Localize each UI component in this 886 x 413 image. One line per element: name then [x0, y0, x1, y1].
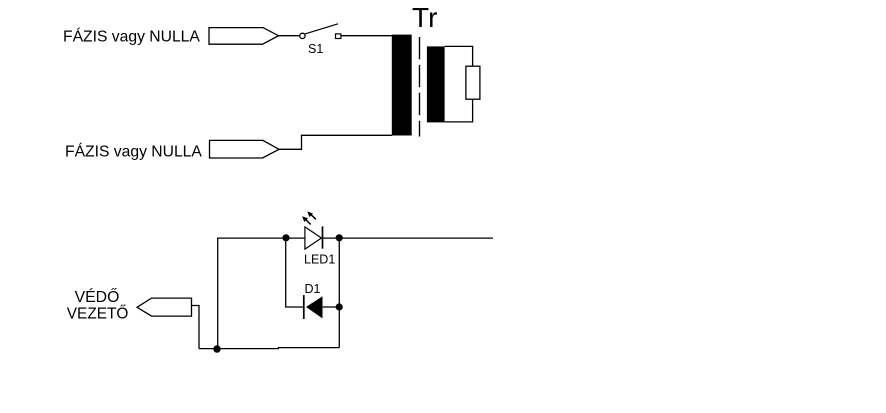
LED LED1 triangle	[305, 227, 322, 249]
node junction dot D (protective earth)	[213, 345, 220, 352]
wire D1 to right branch	[323, 306, 340, 308]
svg-text:S1: S1	[308, 42, 323, 56]
wire switch to transformer primary	[341, 35, 392, 37]
switch S1 pivot circle	[300, 33, 305, 38]
wire lower-loop right vertical	[338, 238, 340, 348]
wire T1 tip to switch	[279, 35, 300, 37]
node junction dot C (D1 right)	[336, 303, 343, 310]
diode D1 cathode bar	[303, 295, 305, 319]
wire T3 to bottom wire	[192, 306, 200, 349]
LED LED1 cathode bar	[322, 226, 324, 248]
terminal connector T3 (protective earth)	[137, 298, 192, 316]
terminal connector T1 (phase/neutral top)	[209, 28, 279, 45]
resistor load R	[466, 66, 480, 99]
transformer Tr core dashed line	[419, 37, 421, 137]
switch S1 contact square	[336, 34, 341, 39]
wire secondary bottom	[445, 99, 473, 122]
svg-text:FÁZIS vagy NULLA: FÁZIS vagy NULLA	[63, 26, 200, 45]
transformer Tr primary winding bar	[392, 35, 412, 136]
wire lower-loop top	[218, 237, 493, 239]
LED LED1 emission arrow upper	[311, 214, 316, 219]
svg-text:LED1: LED1	[304, 253, 335, 267]
svg-text:FÁZIS vagy NULLA: FÁZIS vagy NULLA	[65, 142, 202, 161]
svg-text:VÉDŐ: VÉDŐ	[75, 287, 120, 306]
wire T2 to transformer primary bottom	[279, 135, 392, 149]
wire secondary top	[445, 46, 473, 66]
node junction dot A (LED anode)	[282, 234, 289, 241]
svg-text:VEZETŐ: VEZETŐ	[67, 306, 129, 323]
LED LED1 emission arrow lower	[305, 219, 310, 224]
transformer Tr secondary winding bar	[427, 46, 445, 122]
wire lower-loop bottom	[199, 348, 339, 349]
terminal connector T2 (phase/neutral bottom)	[210, 140, 280, 158]
switch S1 lever	[305, 24, 338, 34]
diode D1 triangle	[306, 296, 323, 318]
wire lower-loop left vertical	[217, 238, 219, 349]
svg-text:D1: D1	[305, 282, 321, 296]
svg-text:Tr: Tr	[412, 2, 437, 33]
node junction dot B (LED cathode)	[336, 234, 343, 241]
wire LED left branch down to D1	[286, 238, 304, 307]
